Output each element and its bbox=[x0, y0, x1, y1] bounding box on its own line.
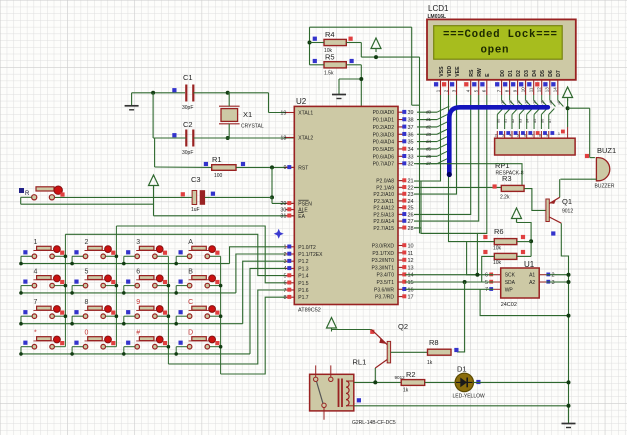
bus entries LCD bbox=[501, 95, 503, 100]
wire column 2 row 3 stub bbox=[106, 315, 117, 317]
wire bbox=[153, 187, 155, 216]
wire bbox=[559, 179, 561, 197]
pin 21 P2.0/A8 bbox=[398, 180, 406, 182]
svg-text:30pF: 30pF bbox=[182, 150, 193, 156]
svg-text:1uF: 1uF bbox=[191, 207, 200, 213]
wire row 2 to U2 pin 2 bbox=[236, 254, 285, 293]
pin 37 P0.2/AD2 bbox=[398, 126, 406, 128]
wire bbox=[590, 157, 595, 159]
svg-text:#: # bbox=[136, 330, 140, 337]
wire E to pin28 bbox=[414, 95, 487, 233]
wire column 1 row 1 stub bbox=[54, 255, 65, 257]
pin marker bbox=[313, 37, 317, 41]
wire column 4 row 3 stub bbox=[210, 315, 221, 317]
wire row 1 to U2 pin 1 bbox=[230, 247, 286, 264]
svg-text:29: 29 bbox=[280, 201, 286, 207]
svg-text:d5: d5 bbox=[426, 146, 432, 151]
power arrow bbox=[149, 175, 159, 186]
svg-text:5: 5 bbox=[517, 134, 519, 138]
wire column 1 to U2 pin 5 bbox=[65, 234, 285, 275]
svg-text:30: 30 bbox=[280, 207, 286, 213]
resistor R7 bbox=[494, 253, 517, 259]
svg-text:7: 7 bbox=[33, 299, 37, 306]
wire row 2 button 4 drop bbox=[176, 285, 187, 287]
wire bbox=[154, 138, 156, 167]
node bbox=[567, 280, 571, 284]
wire bbox=[568, 107, 590, 109]
svg-text:RL1: RL1 bbox=[353, 358, 367, 367]
svg-text:WP: WP bbox=[505, 287, 514, 293]
resistor pack RP1 RESPACK-8 bbox=[496, 131, 498, 138]
wire column 2 to U2 pin 6 bbox=[116, 226, 285, 283]
pin marker bbox=[211, 192, 215, 196]
svg-text:SCK: SCK bbox=[505, 273, 516, 279]
svg-text:19: 19 bbox=[280, 110, 286, 116]
svg-text:A1: A1 bbox=[529, 273, 535, 279]
wire Q1 collector bbox=[561, 223, 568, 421]
wire row 2 button 3 drop bbox=[124, 285, 135, 287]
pin 26 P2.5/A13 bbox=[398, 213, 406, 215]
pin 39 P0.0/AD0 bbox=[398, 111, 406, 113]
svg-text:C1: C1 bbox=[183, 73, 193, 82]
wire P3.4 SCK bbox=[405, 274, 493, 276]
svg-text:P3.2/INT0: P3.2/INT0 bbox=[371, 258, 394, 264]
svg-text:D3: D3 bbox=[524, 70, 530, 77]
svg-text:6: 6 bbox=[524, 134, 526, 138]
svg-text:LCD1: LCD1 bbox=[428, 4, 449, 13]
node bbox=[475, 273, 479, 277]
svg-text:37: 37 bbox=[408, 125, 414, 131]
wire WP down bbox=[480, 289, 568, 315]
pin marker bbox=[349, 37, 353, 41]
svg-text:C: C bbox=[188, 299, 193, 306]
pin 19 XTAL1 bbox=[285, 112, 294, 114]
svg-text:P1.5: P1.5 bbox=[298, 281, 309, 287]
svg-text:d0: d0 bbox=[496, 119, 500, 123]
wire bbox=[152, 93, 154, 138]
svg-text:13: 13 bbox=[408, 265, 414, 271]
pin 27 P2.6/A14 bbox=[398, 220, 406, 222]
svg-text:U2: U2 bbox=[296, 97, 307, 106]
svg-text:2: 2 bbox=[85, 239, 89, 246]
power arrow bbox=[512, 208, 522, 219]
svg-text:P0.5/AD5: P0.5/AD5 bbox=[373, 147, 395, 153]
svg-text:R4: R4 bbox=[325, 30, 335, 39]
svg-text:*: * bbox=[34, 330, 37, 337]
node bbox=[374, 55, 378, 59]
svg-text:7: 7 bbox=[485, 287, 488, 293]
pin marker bbox=[241, 162, 245, 166]
svg-text:RW: RW bbox=[477, 68, 483, 77]
bus bbox=[449, 107, 548, 174]
svg-text:P2.7/A15: P2.7/A15 bbox=[373, 226, 394, 232]
pin 31 EA bbox=[285, 215, 294, 217]
wire to XTAL2 bbox=[193, 137, 294, 139]
pin 34 P0.5/AD5 bbox=[398, 148, 406, 150]
wire VEE to pin23 bbox=[414, 95, 457, 194]
svg-text:3: 3 bbox=[502, 134, 504, 138]
wire bbox=[21, 196, 32, 198]
svg-text:E: E bbox=[485, 73, 491, 77]
wire R7 left bbox=[482, 256, 495, 282]
power arrow VCC bbox=[563, 87, 573, 98]
node bbox=[226, 91, 230, 95]
svg-text:P1.2: P1.2 bbox=[298, 259, 309, 265]
svg-text:R6: R6 bbox=[494, 227, 504, 236]
svg-text:2: 2 bbox=[495, 134, 497, 138]
node bbox=[226, 136, 230, 140]
wire bbox=[419, 57, 421, 233]
pin 9 RST bbox=[285, 166, 294, 168]
wire row 3 button 4 drop bbox=[176, 315, 187, 317]
svg-text:D1: D1 bbox=[508, 70, 514, 77]
node bbox=[270, 195, 274, 199]
node bbox=[308, 41, 312, 45]
wire column 3 to U2 pin 7 bbox=[168, 290, 285, 364]
wire pin22 to R3 bbox=[414, 186, 501, 188]
svg-text:9: 9 bbox=[283, 165, 286, 171]
svg-text:AT89C52: AT89C52 bbox=[298, 308, 321, 314]
node bbox=[270, 165, 274, 169]
svg-text:28: 28 bbox=[408, 226, 414, 232]
pin 12 P3.2/INT0 bbox=[398, 259, 406, 261]
svg-text:1: 1 bbox=[33, 239, 37, 246]
svg-text:P2.5/A13: P2.5/A13 bbox=[373, 212, 394, 218]
wire to RST bbox=[236, 166, 294, 168]
wire row 3 to U2 pin 3 bbox=[243, 261, 286, 324]
svg-text:11: 11 bbox=[408, 251, 414, 257]
svg-text:4: 4 bbox=[283, 266, 286, 272]
svg-text:9012: 9012 bbox=[562, 209, 573, 215]
wire bbox=[589, 108, 591, 157]
svg-text:8: 8 bbox=[85, 299, 89, 306]
svg-text:2.2k: 2.2k bbox=[500, 195, 510, 201]
svg-text:10: 10 bbox=[408, 244, 414, 250]
wire A1 bbox=[546, 274, 568, 276]
crystal X1 bbox=[221, 109, 238, 122]
svg-text:XTAL1: XTAL1 bbox=[298, 111, 313, 117]
pin marker bbox=[357, 398, 361, 402]
svg-text:A: A bbox=[188, 239, 193, 246]
wire column 1 row 3 stub bbox=[54, 315, 65, 317]
svg-text:7: 7 bbox=[531, 134, 533, 138]
wire P3.5 SDA bbox=[405, 281, 493, 283]
svg-text:P1.7: P1.7 bbox=[298, 295, 309, 301]
wire bbox=[517, 255, 531, 257]
svg-text:d3: d3 bbox=[525, 100, 529, 104]
svg-text:P3.7/RD: P3.7/RD bbox=[375, 295, 394, 301]
svg-text:RP1: RP1 bbox=[495, 161, 510, 170]
wire column 2 row 2 stub bbox=[106, 285, 117, 287]
wire column 3 row 4 stub bbox=[157, 346, 168, 348]
svg-text:D4: D4 bbox=[532, 70, 538, 77]
svg-text:12: 12 bbox=[408, 258, 414, 264]
svg-text:D0: D0 bbox=[500, 70, 506, 77]
wire bbox=[346, 64, 361, 66]
RP1 pin 1 bbox=[567, 127, 569, 138]
svg-text:d6: d6 bbox=[426, 154, 432, 159]
svg-text:30pF: 30pF bbox=[182, 105, 193, 111]
svg-text:24C02: 24C02 bbox=[501, 302, 517, 308]
wire column 4 row 2 stub bbox=[210, 285, 221, 287]
svg-text:d7: d7 bbox=[548, 119, 552, 123]
svg-text:17: 17 bbox=[408, 295, 414, 301]
svg-text:d4: d4 bbox=[533, 100, 537, 104]
pin marker bbox=[172, 88, 176, 92]
svg-text:P2.4/A12: P2.4/A12 bbox=[373, 206, 394, 212]
svg-text:9: 9 bbox=[546, 134, 548, 138]
svg-text:D: D bbox=[188, 330, 193, 337]
pin 33 P0.6/AD6 bbox=[398, 155, 406, 157]
wire bbox=[228, 124, 230, 138]
svg-text:R: R bbox=[25, 191, 30, 197]
pin marker bbox=[204, 162, 208, 166]
svg-text:3: 3 bbox=[136, 239, 140, 246]
wire bbox=[52, 196, 192, 198]
node bbox=[567, 273, 571, 277]
pin 32 P0.7/AD7 bbox=[398, 163, 406, 165]
svg-text:d6: d6 bbox=[540, 119, 544, 123]
pin marker bbox=[370, 330, 374, 334]
svg-text:P2.2/A10: P2.2/A10 bbox=[373, 192, 394, 198]
wire column 3 row 2 stub bbox=[157, 285, 168, 287]
svg-text:16: 16 bbox=[408, 287, 414, 293]
svg-text:d1: d1 bbox=[509, 100, 513, 104]
wire P0 pin wires bbox=[417, 111, 437, 113]
ground bbox=[131, 93, 133, 106]
wire bbox=[360, 65, 362, 107]
svg-text:1: 1 bbox=[283, 245, 286, 251]
pin 10 P3.0/RXD bbox=[398, 245, 406, 247]
wire column 3 row 1 stub bbox=[157, 255, 168, 257]
wire bbox=[271, 197, 273, 203]
node bbox=[566, 106, 570, 110]
svg-text:P0.1/AD1: P0.1/AD1 bbox=[373, 118, 395, 124]
svg-text:d4: d4 bbox=[426, 139, 432, 144]
wire bbox=[517, 241, 531, 243]
wire bbox=[310, 42, 325, 44]
node bbox=[529, 239, 533, 243]
pin 4 P1.3 bbox=[285, 267, 294, 269]
pin marker bbox=[172, 133, 176, 137]
wire bbox=[516, 220, 518, 223]
pin marker bbox=[551, 231, 555, 235]
wire bbox=[339, 78, 361, 80]
node bbox=[359, 77, 363, 81]
wire bbox=[411, 27, 413, 105]
wire bbox=[153, 137, 186, 139]
wire row 2 button 1 drop bbox=[21, 285, 32, 287]
push button reset bbox=[19, 188, 24, 193]
wire bbox=[271, 167, 273, 197]
svg-text:LED-YELLOW: LED-YELLOW bbox=[453, 394, 486, 400]
svg-text:P0.6/AD6: P0.6/AD6 bbox=[373, 154, 395, 160]
wire Q2 base to R8 bbox=[391, 351, 428, 353]
svg-text:G2RL-14B-CF-DC5: G2RL-14B-CF-DC5 bbox=[352, 420, 396, 426]
svg-text:d1: d1 bbox=[426, 117, 432, 122]
power arrow bbox=[327, 318, 337, 329]
pin marker bbox=[483, 250, 487, 254]
svg-text:1.5k: 1.5k bbox=[324, 71, 334, 77]
ground bbox=[338, 79, 340, 95]
svg-text:P3.5/T1: P3.5/T1 bbox=[376, 280, 394, 286]
wire bbox=[228, 92, 269, 94]
bus entry d7 bbox=[437, 158, 449, 164]
wire h233 bbox=[421, 232, 487, 234]
pin marker bbox=[350, 59, 354, 63]
svg-text:P1.0/T2: P1.0/T2 bbox=[298, 245, 316, 251]
wire row 4 button 3 drop bbox=[124, 346, 135, 348]
svg-text:P2.0/A8: P2.0/A8 bbox=[376, 179, 394, 185]
pin 3 P1.2 bbox=[285, 260, 294, 262]
wire bbox=[412, 104, 420, 106]
wire row 3 button 2 drop bbox=[72, 315, 83, 317]
wire keypad column 1 vertical bbox=[64, 234, 66, 346]
pin marker bbox=[313, 59, 317, 63]
svg-text:open: open bbox=[481, 45, 509, 57]
svg-text:B: B bbox=[188, 268, 193, 275]
svg-text:11: 11 bbox=[529, 87, 534, 92]
node bbox=[567, 404, 571, 408]
svg-text:3: 3 bbox=[552, 280, 555, 286]
svg-text:P0.4/AD4: P0.4/AD4 bbox=[373, 140, 395, 146]
svg-text:8: 8 bbox=[539, 134, 541, 138]
svg-text:13: 13 bbox=[545, 87, 550, 93]
pin 11 P3.1/TXD bbox=[398, 252, 406, 254]
svg-text:P1.3: P1.3 bbox=[298, 266, 309, 272]
svg-text:P0.3/AD3: P0.3/AD3 bbox=[373, 132, 395, 138]
svg-text:6: 6 bbox=[283, 281, 286, 287]
svg-text:33: 33 bbox=[408, 154, 414, 160]
svg-text:14: 14 bbox=[553, 87, 558, 93]
pin 38 P0.1/AD1 bbox=[398, 119, 406, 121]
svg-text:X1: X1 bbox=[243, 110, 252, 119]
svg-text:0: 0 bbox=[85, 330, 89, 337]
svg-text:26: 26 bbox=[408, 212, 414, 218]
svg-text:P0.0/AD0: P0.0/AD0 bbox=[373, 110, 395, 116]
svg-text:1: 1 bbox=[558, 132, 560, 136]
wire row 4 button 1 drop bbox=[21, 346, 32, 348]
svg-text:6: 6 bbox=[485, 273, 488, 279]
svg-text:P3.4/T0: P3.4/T0 bbox=[376, 273, 394, 279]
svg-text:R5: R5 bbox=[325, 53, 335, 62]
svg-text:d4: d4 bbox=[526, 119, 530, 123]
pin 24 P2.3/A11 bbox=[398, 200, 406, 202]
pin 7 P1.6 bbox=[285, 289, 294, 291]
wire row 1 button 4 drop bbox=[176, 255, 187, 257]
svg-text:RST: RST bbox=[298, 165, 308, 171]
svg-text:2: 2 bbox=[552, 273, 555, 279]
svg-text:18: 18 bbox=[280, 135, 286, 141]
svg-text:35: 35 bbox=[408, 140, 414, 146]
pin marker bbox=[521, 250, 525, 254]
wire coil top / R2 row bbox=[354, 381, 401, 383]
svg-text:36: 36 bbox=[408, 132, 414, 138]
svg-text:Q2: Q2 bbox=[398, 322, 408, 331]
svg-text:8: 8 bbox=[283, 295, 286, 301]
wire bbox=[567, 99, 569, 127]
wire row 4 to U2 pin 4 bbox=[250, 268, 285, 354]
wire keypad row 4 rail bbox=[21, 353, 250, 355]
pin 1 P1.0/T2 bbox=[285, 246, 294, 248]
svg-text:R2: R2 bbox=[406, 370, 416, 379]
wire column 2 row 1 stub bbox=[106, 255, 117, 257]
svg-text:VDD: VDD bbox=[447, 66, 453, 77]
svg-text:3: 3 bbox=[283, 259, 286, 265]
wire to EA bbox=[154, 215, 295, 217]
svg-text:P1.1/T2EX: P1.1/T2EX bbox=[298, 252, 323, 258]
pin 2 P1.1/T2EX bbox=[285, 253, 294, 255]
svg-text:d3: d3 bbox=[426, 132, 432, 137]
svg-text:VEE: VEE bbox=[455, 66, 461, 77]
svg-text:d1: d1 bbox=[504, 119, 508, 123]
wire column 3 row 3 stub bbox=[157, 315, 168, 317]
pin 22 P2.1/A9 bbox=[398, 186, 406, 188]
pin 15 P3.5/T1 bbox=[398, 281, 406, 283]
node bbox=[151, 91, 155, 95]
svg-text:P3.1/TXD: P3.1/TXD bbox=[372, 251, 394, 257]
svg-text:d5: d5 bbox=[541, 100, 545, 104]
svg-text:P0.2/AD2: P0.2/AD2 bbox=[373, 125, 395, 131]
pin 8 P1.7 bbox=[285, 296, 294, 298]
svg-text:d3: d3 bbox=[518, 119, 522, 123]
svg-text:XTAL2: XTAL2 bbox=[298, 136, 313, 142]
wire row 3 button 1 drop bbox=[21, 315, 32, 317]
U1 pin 5 SDA bbox=[494, 281, 501, 283]
wire keypad column 4 vertical bbox=[220, 256, 222, 374]
svg-text:d2: d2 bbox=[517, 100, 521, 104]
wire bbox=[346, 42, 361, 44]
wire row 2 button 2 drop bbox=[72, 285, 83, 287]
svg-text:15: 15 bbox=[408, 280, 414, 286]
wire column 2 row 4 stub bbox=[106, 346, 117, 348]
svg-text:P0.7/AD7: P0.7/AD7 bbox=[373, 162, 395, 168]
U1 pin 7 WP bbox=[494, 288, 501, 290]
wire to XTAL1 bbox=[269, 112, 295, 114]
wire row 1 button 2 drop bbox=[72, 255, 83, 257]
U1 pin 3 A2 bbox=[539, 281, 546, 283]
wire bbox=[310, 26, 412, 28]
wire pin32 to R3 right bbox=[414, 164, 522, 189]
svg-text:12: 12 bbox=[537, 87, 542, 93]
svg-text:25: 25 bbox=[408, 206, 414, 212]
bus entry d4 bbox=[437, 136, 449, 142]
svg-text:d2: d2 bbox=[426, 124, 432, 129]
svg-text:39: 39 bbox=[408, 110, 414, 116]
wire bbox=[132, 92, 185, 94]
svg-text:BUZZER: BUZZER bbox=[595, 184, 615, 190]
pin marker bbox=[181, 192, 185, 196]
svg-text:Q1: Q1 bbox=[562, 197, 572, 206]
wire D1 to rail bbox=[474, 381, 569, 383]
svg-text:CRYSTAL: CRYSTAL bbox=[241, 124, 264, 130]
wire pin21 branch bbox=[420, 181, 422, 233]
pin 6 P1.5 bbox=[285, 282, 294, 284]
wire P3.6 WP bbox=[405, 288, 493, 290]
svg-text:D7: D7 bbox=[556, 70, 562, 77]
pin 16 P3.6/WR bbox=[398, 288, 406, 290]
svg-text:P3.6/WR: P3.6/WR bbox=[374, 287, 394, 293]
wire row 3 button 3 drop bbox=[124, 315, 135, 317]
svg-text:VSS: VSS bbox=[439, 66, 445, 77]
wire R6 left bbox=[467, 242, 495, 275]
pin 35 P0.4/AD4 bbox=[398, 141, 406, 143]
pin marker bbox=[483, 235, 487, 239]
svg-text:5: 5 bbox=[485, 280, 488, 286]
svg-text:31: 31 bbox=[280, 214, 286, 220]
pin 23 P2.2/A10 bbox=[398, 193, 406, 195]
svg-text:P1.4: P1.4 bbox=[298, 274, 309, 280]
